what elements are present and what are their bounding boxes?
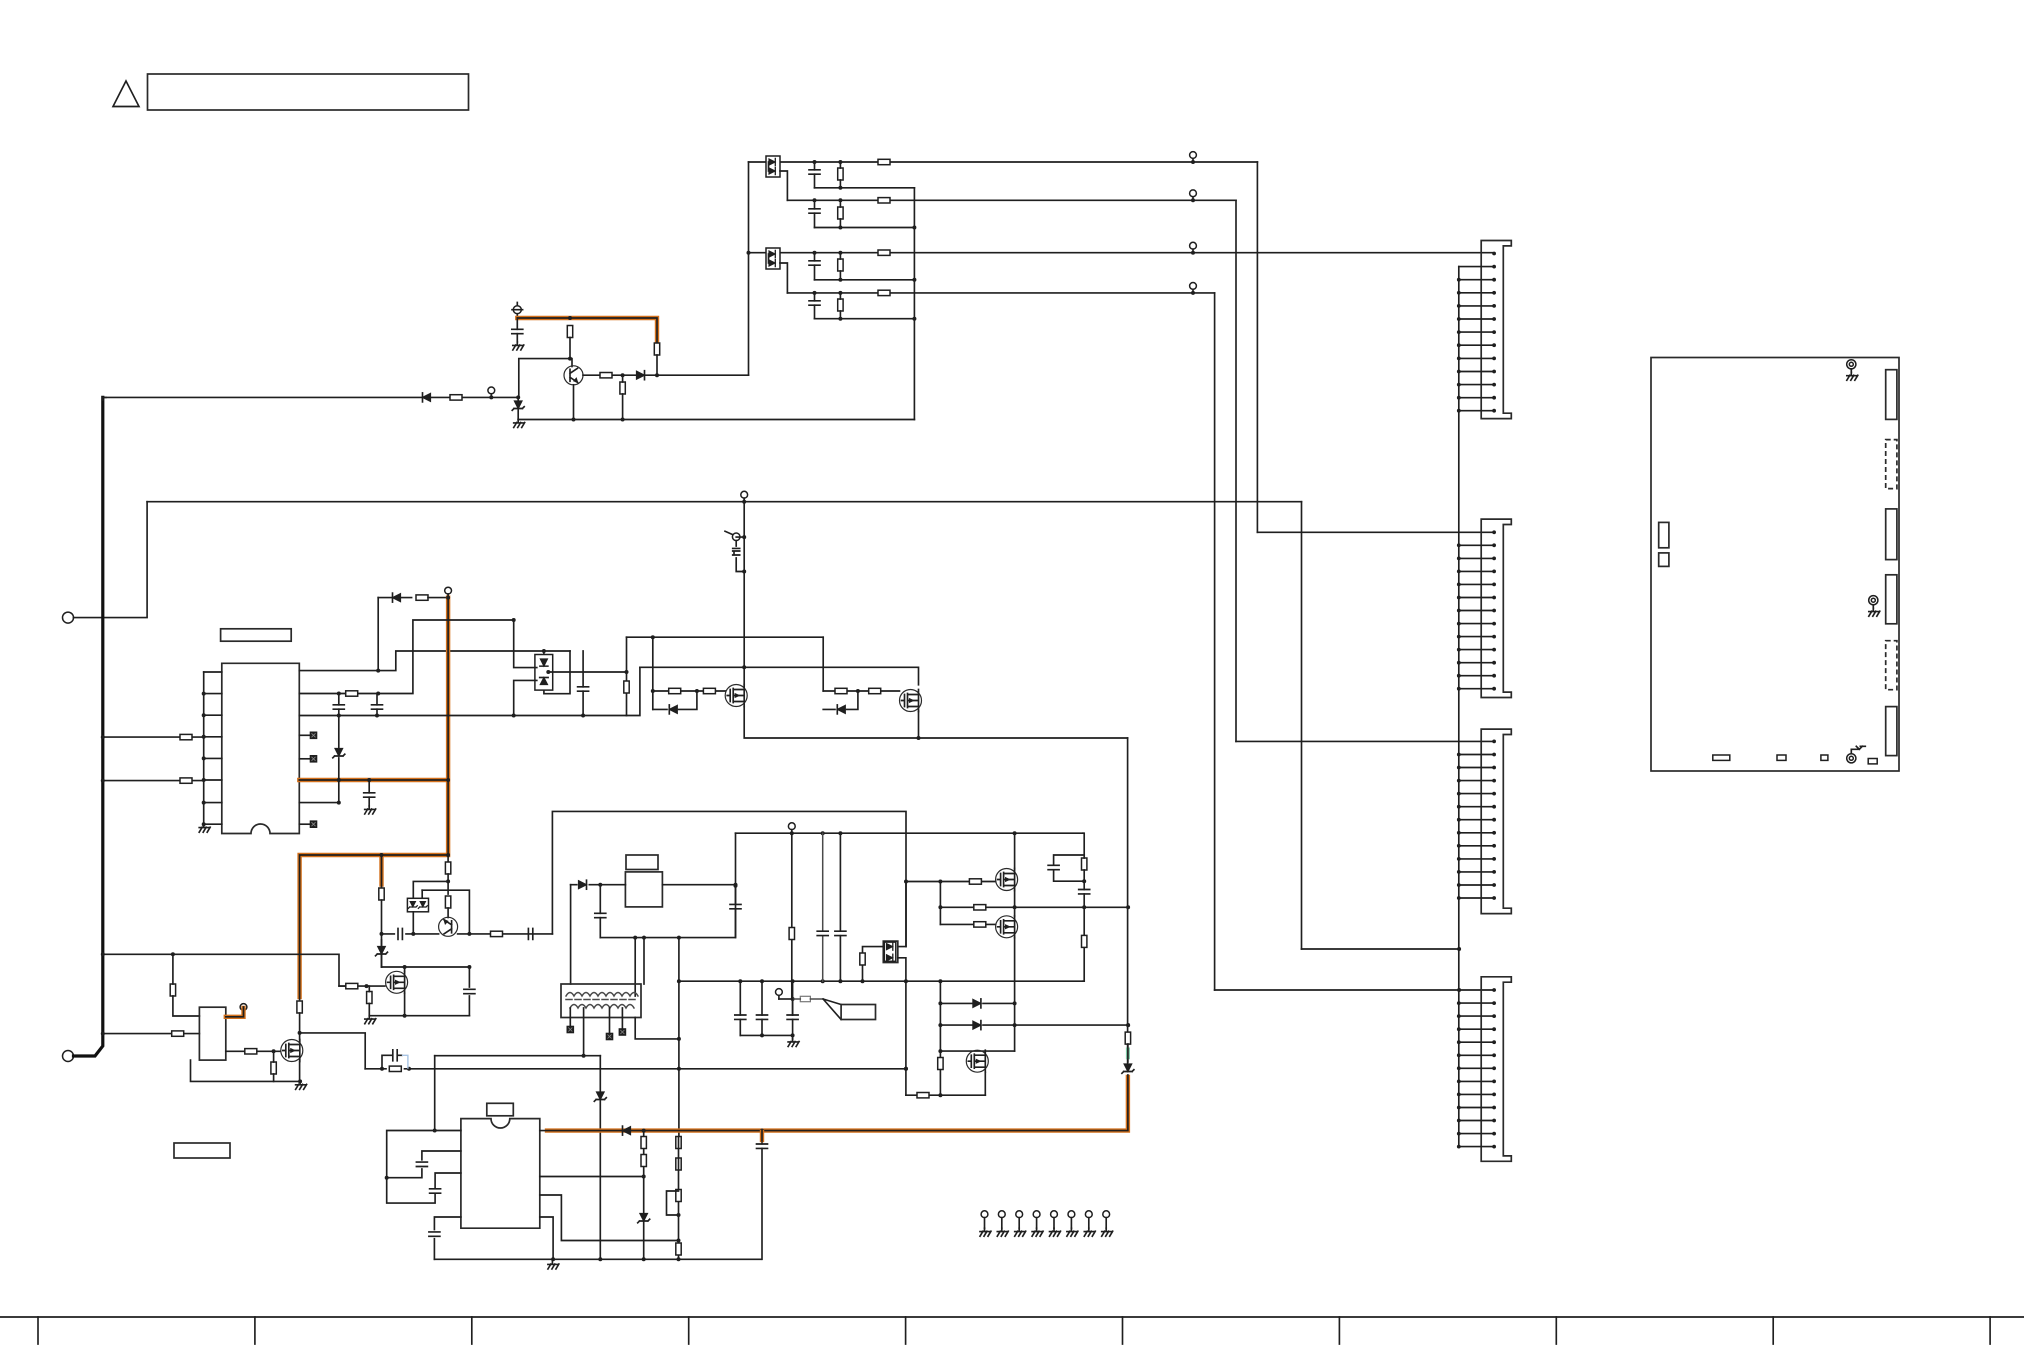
wire: U2 pin3 left y1173 + cap bbox=[387, 1173, 461, 1203]
wire: net4 bottom rail bbox=[815, 318, 915, 320]
capacitor C pinB-C b bbox=[372, 705, 383, 709]
ground bbox=[513, 342, 524, 350]
wire: black core over orange bbox=[517, 318, 657, 344]
orange wire: standby out elbow bbox=[226, 1008, 244, 1017]
resistor R line1 series bbox=[878, 159, 890, 164]
wire: resistor to K bbox=[447, 908, 449, 918]
wire: C net4 leads bbox=[814, 293, 816, 319]
wire: zener base link bbox=[422, 890, 469, 934]
pin CN1-11 bbox=[1457, 383, 1496, 387]
pin CN1-12 bbox=[1457, 396, 1496, 400]
board pad 1 bbox=[1713, 755, 1730, 760]
label box relay bbox=[626, 855, 658, 870]
resistor R 678 c bbox=[676, 1190, 681, 1202]
diode D1b bbox=[769, 167, 775, 174]
node bbox=[581, 714, 585, 718]
node bbox=[446, 778, 450, 782]
dual diode box output bbox=[883, 941, 898, 962]
wire: y1055.7 line bbox=[435, 1055, 601, 1057]
wire: cap leads bbox=[516, 318, 518, 342]
diode D boot bbox=[393, 593, 401, 602]
node bbox=[813, 198, 817, 202]
test point TP standby bbox=[240, 1004, 247, 1014]
node bbox=[655, 373, 659, 377]
orange wire: vcc rail down IC right side bbox=[299, 598, 448, 997]
resistor R net2 bbox=[838, 207, 843, 219]
capacitor C pin3 bbox=[430, 1189, 441, 1193]
node bbox=[202, 778, 206, 782]
pin CN2-10 bbox=[1457, 648, 1496, 652]
wire: net2 bottom rail bbox=[815, 227, 915, 229]
wire: Q aux drain bbox=[404, 967, 406, 972]
resistor Rg M1 bbox=[969, 879, 981, 884]
node bbox=[838, 186, 842, 190]
wire: vcc tap cap at 735.5 bbox=[735, 885, 737, 938]
wire: 600.3 column down bbox=[599, 1056, 601, 1260]
node: diode branch join bbox=[376, 669, 380, 673]
mosfet M1 bbox=[996, 869, 1018, 891]
capacitor C pin2 bbox=[416, 1162, 427, 1166]
board screw top bbox=[1847, 360, 1858, 381]
wire: long signal line y501.7 bbox=[147, 501, 1301, 503]
pin CN4-5 bbox=[1457, 1040, 1496, 1044]
node bbox=[738, 979, 742, 983]
mosfet M3 bbox=[966, 1050, 988, 1072]
test point tp-g4 bbox=[1032, 1211, 1043, 1236]
wire: R net3 leads bbox=[839, 253, 841, 280]
diode Do2 bbox=[886, 954, 892, 961]
wire: R net1 leads bbox=[839, 162, 841, 188]
wire: base bias line bbox=[519, 359, 570, 398]
wire: Q1 base output line bbox=[583, 374, 749, 376]
wire: wireB y990 conn4 pin1 feed bbox=[1215, 989, 1494, 991]
node bbox=[1082, 905, 1086, 909]
pin CN2-2 bbox=[1457, 543, 1496, 547]
resistor Rg2a bbox=[835, 688, 847, 693]
resistor R series 1084 bbox=[1082, 935, 1087, 947]
wire: y933.9 base line bbox=[382, 933, 553, 935]
pin CN2-4 bbox=[1457, 570, 1496, 574]
node bbox=[790, 831, 794, 835]
wire: gate2 line y924.4 bbox=[940, 923, 995, 925]
wire: y907.3 line bbox=[940, 906, 1128, 908]
wire: gs leads bbox=[367, 986, 370, 1016]
diode Dg2 bbox=[837, 705, 845, 714]
board screw bottom bbox=[1847, 746, 1866, 763]
wire: C net1 leads bbox=[814, 162, 816, 188]
capacitor C driver bbox=[578, 687, 589, 691]
resistor R gate standby bbox=[245, 1049, 257, 1054]
wire: aux ground rail bbox=[369, 1015, 469, 1017]
terminal T1 bbox=[63, 612, 74, 623]
pin CN4-2 bbox=[1457, 1001, 1496, 1005]
node bbox=[760, 1129, 764, 1133]
test point tp-g5 bbox=[1050, 1211, 1061, 1236]
wire: cap branch right bbox=[468, 967, 470, 1016]
node bbox=[912, 317, 916, 321]
node bbox=[407, 1067, 411, 1071]
node bbox=[742, 570, 746, 574]
resistor R diode bus bbox=[938, 1058, 943, 1070]
resistor R in standby bbox=[172, 1031, 184, 1036]
resistor R 678 a bbox=[676, 1137, 681, 1149]
diode arrow up inside bbox=[540, 678, 547, 685]
node bbox=[446, 879, 450, 883]
resistor R pulldown bbox=[620, 382, 625, 394]
crossed terminal t2 bbox=[606, 1033, 612, 1039]
capacitor C net4 bbox=[809, 301, 820, 305]
zener ZD pinB chain bbox=[333, 749, 345, 758]
wire: right gate line y691 bbox=[823, 690, 899, 692]
pin CN2-9 bbox=[1457, 635, 1496, 639]
test point TP line3 bbox=[1190, 242, 1197, 252]
crossed terminal t3 bbox=[619, 1029, 625, 1035]
wire: left vertical from line1 down to transistor output bbox=[748, 162, 750, 375]
node bbox=[813, 251, 817, 255]
node bbox=[202, 756, 206, 760]
test point TP1 with cross bbox=[513, 306, 521, 314]
pin CN4-3 bbox=[1457, 1014, 1496, 1018]
zener ZD 643 bbox=[638, 1214, 650, 1223]
node bbox=[838, 226, 842, 230]
wire: vcc riser to diode box bbox=[898, 882, 906, 947]
node bbox=[202, 692, 206, 696]
capacitor C rc loop bbox=[1048, 865, 1059, 869]
resistor R collector feed bbox=[567, 326, 572, 338]
transistor K photocoupler-side bbox=[439, 917, 458, 936]
node bbox=[677, 1257, 681, 1261]
diode D2a bbox=[769, 250, 775, 257]
node bbox=[904, 880, 908, 884]
zener Zb bbox=[418, 901, 427, 908]
node bbox=[838, 979, 842, 983]
capacitor C 840 bbox=[835, 931, 846, 935]
wire: y967 line bbox=[382, 966, 470, 968]
pin CN1-5 bbox=[1457, 304, 1496, 308]
node bbox=[938, 880, 942, 884]
wire: M-right source to bottom line bbox=[918, 711, 920, 738]
parallel RC top right bbox=[1082, 858, 1087, 870]
wire: parallel loop bbox=[382, 1055, 402, 1069]
node bbox=[904, 1067, 908, 1071]
standby regulator U box bbox=[199, 1007, 225, 1060]
node bbox=[202, 735, 206, 739]
resistor R boot bbox=[416, 595, 428, 600]
wire: U2 right pin y1217 to ground rail bbox=[540, 1217, 553, 1259]
test point TP2 bbox=[788, 823, 795, 833]
wire: line3 y252.7 bbox=[749, 252, 1493, 254]
dual diode pack D2 box bbox=[766, 248, 780, 269]
resistor R aux gs bbox=[367, 992, 372, 1004]
resistor R pinB bbox=[346, 691, 358, 696]
test point tp-g3 bbox=[1015, 1211, 1026, 1236]
pin CN3-9 bbox=[1457, 844, 1496, 848]
capacitor C net2 bbox=[809, 209, 820, 213]
wire: black cores over orange bbox=[299, 594, 448, 1000]
node bbox=[904, 979, 908, 983]
connector CN3 body bbox=[1481, 729, 1511, 914]
wire: line2 y200.3 bbox=[787, 199, 1236, 201]
transformer core dashes bbox=[566, 999, 637, 1001]
node bbox=[1126, 905, 1130, 909]
node bbox=[1457, 947, 1461, 951]
ground rail C bbox=[548, 1261, 559, 1269]
pin CN2-11 bbox=[1457, 661, 1496, 665]
wire: y1051.1 M3 drain line bbox=[940, 1050, 1014, 1052]
pin CN4-7 bbox=[1457, 1066, 1496, 1070]
node bbox=[791, 979, 795, 983]
node bbox=[856, 689, 860, 693]
node bbox=[171, 952, 175, 956]
node bbox=[791, 1033, 795, 1037]
orange wire: main PFC output bbox=[547, 1077, 1128, 1131]
diode D orange bbox=[623, 1126, 631, 1135]
capacitor C pinB-C a bbox=[333, 705, 344, 709]
resistor R aux gate bbox=[346, 983, 358, 988]
capacitor C link parallel bbox=[393, 1050, 397, 1061]
node bbox=[376, 692, 380, 696]
resistor R 643 a bbox=[641, 1137, 646, 1149]
node bbox=[651, 689, 655, 693]
IC U1 body bbox=[222, 663, 299, 833]
dual zener box bbox=[407, 898, 428, 912]
node bbox=[411, 932, 415, 936]
node bbox=[904, 1067, 908, 1071]
pin CN3-10 bbox=[1457, 857, 1496, 861]
node bbox=[760, 1033, 764, 1037]
node bbox=[938, 1001, 942, 1005]
node bbox=[625, 670, 629, 674]
zener ZD 1128 bbox=[1122, 1064, 1134, 1073]
node bbox=[446, 853, 450, 857]
wire: box lower-right to rail bbox=[898, 958, 906, 1095]
orange wire: vcc stub bbox=[517, 318, 657, 341]
wire: zener chain vertical bbox=[338, 716, 340, 803]
node bbox=[642, 1129, 646, 1133]
wire: IC1 pinA y670.6 to riser bbox=[299, 651, 570, 671]
wire: U2 pin4 left y1217 + cap bbox=[434, 1217, 461, 1259]
test point tp-g7 bbox=[1084, 1211, 1095, 1236]
pin CN3-13 bbox=[1457, 896, 1496, 900]
pin CN4-13 bbox=[1457, 1145, 1496, 1149]
wire: Q standby drain bbox=[299, 1033, 301, 1040]
wire: 822.7 cap column bbox=[822, 833, 824, 981]
node bbox=[385, 1176, 389, 1180]
node bbox=[546, 670, 550, 674]
wire: transformer pin stubs bottom bbox=[570, 1008, 622, 1056]
resistor R 643 b bbox=[641, 1155, 646, 1167]
wire: D1 internal anode link bbox=[768, 162, 770, 171]
zener ZD input bbox=[512, 401, 524, 410]
node bbox=[516, 395, 520, 399]
wire: cap vertical bbox=[582, 651, 584, 716]
wire: conn2 pin1 feed y532.3 bbox=[1257, 531, 1494, 533]
resistor R 792 bbox=[789, 928, 794, 940]
wire: cap b leads bbox=[376, 694, 378, 716]
board pad 2 bbox=[1777, 755, 1786, 760]
wire: snubber bottom line bbox=[740, 1034, 792, 1036]
wire: connector feed bus bbox=[1458, 267, 1460, 1147]
label box lower left bbox=[174, 1143, 230, 1158]
capacitor C primary bbox=[595, 913, 606, 917]
resistor R box feed bbox=[860, 953, 865, 965]
wire: y1068.8 link line bbox=[365, 1068, 906, 1070]
wire: aux b lead bbox=[447, 874, 449, 881]
wire: green segment bbox=[1126, 1048, 1130, 1060]
wire: gate1 line y881.5 bbox=[906, 881, 996, 883]
board connector slot 6 bbox=[1886, 707, 1897, 756]
resistor R net4 bbox=[838, 299, 843, 311]
pin CN3-5 bbox=[1457, 792, 1496, 796]
pin CN2-13 bbox=[1457, 687, 1496, 691]
wire: bias vertical bbox=[173, 954, 200, 1016]
node bbox=[1082, 879, 1086, 883]
wire: signal bus 1301.5 bbox=[1301, 502, 1303, 949]
wire: R net2 leads bbox=[839, 200, 841, 227]
wire: diode row1 bbox=[940, 1002, 1014, 1004]
wire: rail B y981.2 bbox=[679, 980, 1084, 982]
node bbox=[403, 965, 407, 969]
node bbox=[101, 1032, 105, 1036]
test point tp-g2 bbox=[997, 1211, 1008, 1236]
IC U2 body with notch bbox=[461, 1119, 540, 1229]
test point tp-g1 bbox=[980, 1211, 991, 1236]
wire: rail A y937.6 bbox=[600, 833, 735, 937]
capacitor C orange bbox=[757, 1144, 768, 1148]
capacitor C k base bbox=[398, 928, 402, 939]
node bbox=[642, 936, 646, 940]
wire: resistor to base node bbox=[656, 355, 658, 375]
board left slot b bbox=[1659, 553, 1669, 567]
crossed pin IC1 nc2 bbox=[299, 758, 310, 760]
capacitor C k out bbox=[528, 928, 532, 939]
node bbox=[337, 692, 341, 696]
resistor Rg1a bbox=[669, 688, 681, 693]
capacitor C net1 bbox=[809, 170, 820, 174]
diode Dr2 bbox=[973, 1021, 981, 1030]
node bbox=[568, 357, 572, 361]
wire: U2 right pin y1176.5 bbox=[540, 1176, 644, 1178]
wire: U2 pin1 left y1130.5 bbox=[387, 1131, 461, 1178]
wire: bottom rail C bbox=[434, 1258, 760, 1260]
node bbox=[101, 952, 105, 956]
node bbox=[1191, 198, 1195, 202]
node bbox=[598, 883, 602, 887]
pin CN4-12 bbox=[1457, 1132, 1496, 1136]
pin CN3-12 bbox=[1457, 883, 1496, 887]
wire: top output rail y833.2 bbox=[736, 832, 1084, 834]
capacitor C 822 bbox=[817, 931, 828, 935]
capacitor C vcc tap bbox=[730, 904, 741, 908]
pin CN3-4 bbox=[1457, 779, 1496, 783]
wire: input line A y737 bbox=[103, 736, 204, 738]
resistor R bias bbox=[170, 984, 175, 996]
wire: riser 552.4 to y811.4 bbox=[552, 811, 906, 946]
node bbox=[621, 373, 625, 377]
label box IC1 bbox=[221, 629, 292, 641]
pin CN2-7 bbox=[1457, 609, 1496, 613]
wire: snub2 leads bbox=[761, 981, 763, 1035]
node bbox=[695, 689, 699, 693]
wire: branch to dual zener bbox=[413, 881, 448, 898]
resistor R inB bbox=[180, 778, 192, 783]
resistor R orange drop bbox=[297, 1001, 302, 1013]
test point TP line2 bbox=[1190, 190, 1197, 200]
wire: IC1 pin 802.6 bbox=[299, 802, 339, 804]
wire: resistor to node bbox=[569, 338, 571, 359]
pin CN4-6 bbox=[1457, 1053, 1496, 1057]
node bbox=[838, 251, 842, 255]
diode Do1 bbox=[886, 943, 892, 950]
node bbox=[101, 735, 105, 739]
wire: cap leads bbox=[599, 885, 601, 938]
board outline bbox=[1651, 358, 1899, 772]
wire: black core bbox=[226, 1007, 244, 1017]
node bbox=[821, 831, 825, 835]
node bbox=[938, 979, 942, 983]
node bbox=[101, 779, 105, 783]
node bbox=[677, 1037, 681, 1041]
resistor R pennant (gray) bbox=[800, 996, 810, 1001]
pin CN2-1 bbox=[1492, 530, 1496, 534]
wire: cap leads bbox=[368, 780, 370, 806]
node bbox=[598, 1257, 602, 1261]
wire: net1 bottom rail bbox=[815, 187, 915, 189]
wire: T1 to riser bbox=[74, 502, 148, 618]
capacitor C vcc gnd bbox=[364, 793, 375, 797]
terminal T2 bbox=[63, 1051, 74, 1062]
zener ZD aux bbox=[376, 947, 388, 956]
wire: M2 source down bbox=[1014, 938, 1016, 1052]
node bbox=[298, 1079, 302, 1083]
board pad 4 bbox=[1868, 759, 1877, 764]
node bbox=[838, 831, 842, 835]
wire: left diode bus bbox=[939, 981, 941, 1095]
warning text box bbox=[148, 74, 469, 110]
orange wire: nub bbox=[760, 1132, 764, 1140]
wire: line1 y162 bbox=[749, 161, 1258, 163]
test point TP 744 bbox=[741, 491, 748, 501]
connector CN4 body bbox=[1481, 977, 1511, 1162]
wire: line4 y292.9 bbox=[787, 292, 1214, 294]
node bbox=[551, 1257, 555, 1261]
capacitor C snub3 bbox=[787, 1015, 798, 1019]
wire: loop from line to box bottom bbox=[544, 651, 570, 694]
diode Dr1 bbox=[973, 999, 981, 1008]
node bbox=[938, 905, 942, 909]
pin CN1-10 bbox=[1457, 370, 1496, 374]
board connector slot 5 (dashed) bbox=[1886, 641, 1897, 690]
wire: pulldown leads bbox=[622, 375, 624, 419]
wire: 678.9 long column bbox=[678, 938, 680, 1137]
resistor R net3 bbox=[838, 259, 843, 271]
pin CN3-8 bbox=[1457, 831, 1496, 835]
node bbox=[582, 1054, 586, 1058]
node bbox=[446, 596, 450, 600]
crossed terminal t1 bbox=[567, 1026, 573, 1032]
transformer primary coil bbox=[566, 993, 638, 997]
node bbox=[365, 984, 369, 988]
wire: orange cap branch at 762 bbox=[761, 1131, 763, 1260]
node bbox=[677, 1067, 681, 1071]
ground at rail start bbox=[514, 420, 525, 428]
wire: diode to resistor bbox=[378, 597, 411, 599]
node bbox=[938, 1049, 942, 1053]
mosfet Q aux bbox=[386, 971, 408, 993]
node bbox=[512, 618, 516, 622]
resistor R input bbox=[450, 395, 462, 400]
node bbox=[337, 801, 341, 805]
